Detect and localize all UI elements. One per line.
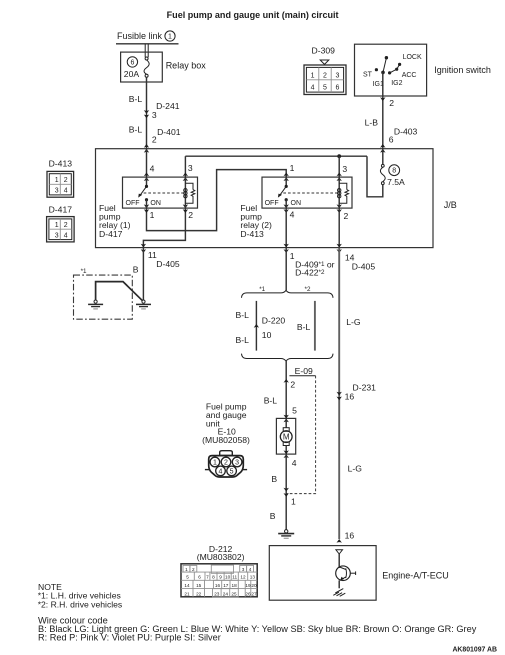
svg-text:24: 24 <box>223 591 229 596</box>
drawing number <box>452 647 497 654</box>
E-09 dashed unit boundary <box>286 376 315 494</box>
wire relay1 pin1 to relay2 pin1 <box>147 170 287 231</box>
svg-text:20: 20 <box>251 583 257 588</box>
pin 10 of D-220 <box>262 330 272 340</box>
svg-text:OFF: OFF <box>265 200 279 207</box>
wire colour label L-B <box>365 118 379 128</box>
svg-text:10: 10 <box>262 330 272 340</box>
svg-text:Ignition switch: Ignition switch <box>434 65 491 75</box>
svg-text:B-L: B-L <box>236 310 250 320</box>
relay 1 actuation dashed link <box>144 192 186 194</box>
svg-text:9: 9 <box>219 575 222 580</box>
svg-text:3: 3 <box>342 164 347 174</box>
connector D-409 or D-422 label <box>295 260 335 278</box>
svg-text:D-309: D-309 <box>312 46 336 56</box>
relay 2 pin 4 label <box>290 209 295 219</box>
wire colour label L-G <box>346 317 361 327</box>
svg-text:2: 2 <box>290 380 295 390</box>
fuel pump pin 5 label <box>292 406 297 416</box>
connector E-09 label <box>295 366 313 376</box>
connector D-405 label left <box>156 259 180 269</box>
relay 2 actuation dashed link <box>283 192 339 194</box>
svg-text:1: 1 <box>55 222 59 229</box>
svg-text:*1: *1 <box>259 286 265 293</box>
relay 1 coil with resistor <box>184 177 195 208</box>
variant 2 wire <box>314 301 316 351</box>
ground G1 at wire <box>136 300 151 309</box>
svg-text:6: 6 <box>198 575 201 580</box>
pin 2 of ignition switch <box>389 98 394 108</box>
wire colour label B-L <box>236 335 250 345</box>
svg-text:10: 10 <box>225 575 231 580</box>
connector D-241 junction arrows <box>144 110 149 118</box>
svg-text:3: 3 <box>152 110 157 120</box>
svg-text:16: 16 <box>345 392 355 402</box>
svg-text:3: 3 <box>55 232 59 239</box>
svg-text:5: 5 <box>292 406 297 416</box>
wire relay2 pin2 down inside J/B <box>338 208 340 248</box>
svg-text:19: 19 <box>245 583 251 588</box>
wire from ignition switch IG2 down <box>382 72 384 148</box>
relay 2 pin 2 label <box>344 211 349 221</box>
svg-text:3: 3 <box>55 188 59 195</box>
svg-text:5: 5 <box>230 468 234 475</box>
svg-text:4: 4 <box>219 468 223 475</box>
wire colour label B-L variant2 <box>297 322 311 332</box>
relay 2 pin 1 crossing arrows <box>284 172 289 181</box>
relay 2 pin 2 crossing arrows <box>337 204 342 213</box>
fuse 8 top lead <box>382 149 384 165</box>
fuel pump and gauge unit text <box>202 402 250 446</box>
svg-text:D-401: D-401 <box>157 127 181 137</box>
J/B pin 11 crossing arrows <box>141 244 146 253</box>
ignition switch label <box>434 65 491 75</box>
svg-text:8: 8 <box>392 168 396 175</box>
svg-text:B: B <box>133 265 139 275</box>
wire colour label B <box>270 511 276 521</box>
svg-text:B: B <box>271 474 277 484</box>
svg-text:6: 6 <box>130 59 134 66</box>
connector D-309 label <box>312 46 336 56</box>
wire from J/B pin 1 down to variant braces <box>285 248 287 291</box>
wire to transistor <box>338 554 340 568</box>
dash-dot variant box <box>74 275 133 319</box>
relay 1 pin 2 label <box>188 210 193 220</box>
svg-text:2: 2 <box>188 210 193 220</box>
top variant brace <box>242 290 334 298</box>
svg-text:16: 16 <box>345 531 355 541</box>
relay 2 ON label <box>291 200 302 207</box>
svg-text:ACC: ACC <box>402 72 417 79</box>
relay 1 pin 1 label <box>150 210 155 220</box>
connector D-405 label right <box>352 262 376 272</box>
ignition switch contacts and lever <box>363 54 422 88</box>
svg-text:ST: ST <box>363 71 373 78</box>
svg-text:D-413: D-413 <box>49 158 73 168</box>
fuse 6 element <box>144 57 149 77</box>
ECU input triangle <box>336 550 343 554</box>
relay 1 switch <box>138 177 148 208</box>
E-09 pin 2 label <box>290 380 295 390</box>
connector D-220 label <box>262 316 286 326</box>
svg-text:1: 1 <box>168 34 172 41</box>
wire colour code block <box>38 616 477 643</box>
svg-text:J/B: J/B <box>444 200 457 210</box>
ignition switch box <box>355 44 427 96</box>
wire from brace to fuel pump unit <box>285 361 287 418</box>
fuse 8 element <box>380 164 385 184</box>
variant 1 wire through D-220 <box>255 301 257 351</box>
pin 2 of D-401 <box>152 135 157 145</box>
svg-text:D-403: D-403 <box>394 127 418 137</box>
fusible link label <box>117 31 163 41</box>
motor element M <box>280 418 292 454</box>
svg-text:1: 1 <box>150 210 155 220</box>
E-09 underline <box>289 375 315 377</box>
svg-text:B: B <box>270 511 276 521</box>
svg-text:17: 17 <box>223 583 229 588</box>
relay 2 pin 3 crossing arrows <box>337 172 342 181</box>
connector D-413 label <box>49 158 73 168</box>
svg-text:13: 13 <box>250 575 256 580</box>
svg-text:4: 4 <box>150 163 155 173</box>
ECU pin 16 label <box>345 531 355 541</box>
connector D-413 pin table <box>47 171 74 197</box>
connector D-231 junction arrows <box>337 392 342 401</box>
variant marker *2 <box>305 286 311 293</box>
svg-text:1: 1 <box>55 177 59 184</box>
connector D-241 label <box>156 101 180 111</box>
transistor Q1 <box>336 566 356 581</box>
svg-text:AK801097 AB: AK801097 AB <box>452 647 497 654</box>
relay 2 OFF label <box>265 200 279 207</box>
svg-text:1: 1 <box>185 567 188 572</box>
fusible link number circle 1 <box>165 31 175 41</box>
relay 1 text label <box>99 203 131 239</box>
J/B pin 11 label <box>148 250 157 260</box>
pin 3 of D-241 <box>152 110 157 120</box>
svg-text:*2: R.H. drive vehicles: *2: R.H. drive vehicles <box>38 599 123 609</box>
wire from fuse 8 to coil bus <box>367 156 383 197</box>
connector D-231 label <box>353 382 377 392</box>
svg-text:(MU803802): (MU803802) <box>197 552 245 562</box>
wire colour label B-L <box>264 395 278 405</box>
relay 2 coil with resistor <box>338 177 349 208</box>
svg-text:B-L: B-L <box>236 335 250 345</box>
svg-text:D-417: D-417 <box>49 204 73 214</box>
svg-text:D-417: D-417 <box>99 229 123 239</box>
svg-text:B-L: B-L <box>129 124 143 134</box>
svg-text:*1: *1 <box>81 268 87 275</box>
engine ECU box <box>269 546 376 601</box>
relay 1 box <box>123 177 198 208</box>
svg-text:3: 3 <box>235 460 239 467</box>
relay 1 pin 1 crossing arrows <box>144 204 149 213</box>
svg-text:R: Red P: Pink V: Violet PU: R: Red P: Pink V: Violet PU: Purple SI: … <box>38 633 221 643</box>
svg-text:ON: ON <box>150 200 161 207</box>
pin 16 of D-231 <box>345 392 355 402</box>
svg-text:26: 26 <box>245 591 251 596</box>
svg-text:2: 2 <box>344 211 349 221</box>
J/B pin 14 label <box>345 253 355 263</box>
svg-text:3: 3 <box>242 567 245 572</box>
wire: double line from bus to fuse 6 <box>145 44 148 57</box>
svg-text:D-220: D-220 <box>262 316 286 326</box>
svg-text:2: 2 <box>152 135 157 145</box>
wire colour label B <box>271 474 277 484</box>
svg-text:IG2: IG2 <box>391 80 402 87</box>
svg-text:Engine-A/T-ECU: Engine-A/T-ECU <box>382 570 449 580</box>
relay 2 box <box>262 177 352 208</box>
svg-text:6: 6 <box>389 134 394 144</box>
fuel pump motor box <box>276 418 295 454</box>
svg-text:(MU802058): (MU802058) <box>202 435 250 445</box>
wire B-L from fuse to J/B <box>146 77 148 148</box>
svg-text:4: 4 <box>290 209 295 219</box>
relay 2 pin 4 crossing arrows <box>284 204 289 213</box>
svg-text:27: 27 <box>251 591 257 596</box>
connector D-220 arrow <box>254 324 259 328</box>
wire colour label B-L <box>129 94 143 104</box>
wire colour label B-L <box>236 310 250 320</box>
wire B from pin 11 to ground <box>142 248 144 300</box>
svg-text:7: 7 <box>206 575 209 580</box>
svg-text:3: 3 <box>188 163 193 173</box>
relay 1 pin 4 label <box>150 163 155 173</box>
svg-text:1: 1 <box>290 163 295 173</box>
svg-text:5: 5 <box>186 575 189 580</box>
alternate ground G2 <box>88 300 103 309</box>
svg-text:18: 18 <box>231 583 237 588</box>
relay 1 pin 4 crossing arrows <box>144 172 149 181</box>
relay 1 pin 3 label <box>188 163 193 173</box>
J/B pin 1 label <box>290 251 295 261</box>
variant marker *1 <box>259 286 265 293</box>
svg-text:L-B: L-B <box>365 118 379 128</box>
connector D-417 pin table <box>47 217 75 242</box>
E-09 entry arrow <box>284 379 289 383</box>
coil supply bus inside J/B <box>185 155 367 157</box>
wire bus to relay 1 pin 3 <box>184 156 186 177</box>
junction block J/B outline <box>96 149 434 248</box>
svg-text:E-09: E-09 <box>295 366 313 376</box>
svg-text:21: 21 <box>184 591 190 596</box>
variant marker *1 for ground <box>81 268 87 275</box>
svg-text:B-L: B-L <box>129 94 143 104</box>
wire B below motor <box>285 454 287 530</box>
connector D-401 crossing arrows at J/B top <box>144 144 149 153</box>
wire relay1 pin2 to J/B pin 11 <box>143 208 185 248</box>
wire transistor to chassis ground <box>338 580 340 588</box>
relay 1 pin 3 crossing arrows <box>183 172 188 181</box>
svg-text:LOCK: LOCK <box>403 54 422 61</box>
connector D-212 part number <box>197 552 245 562</box>
svg-text:7.5A: 7.5A <box>387 177 405 187</box>
svg-text:4: 4 <box>292 458 297 468</box>
svg-text:2: 2 <box>389 98 394 108</box>
svg-text:Fuel pump and gauge unit (main: Fuel pump and gauge unit (main) circuit <box>167 10 339 20</box>
connector D-417 label <box>49 204 73 214</box>
svg-text:2: 2 <box>64 177 68 184</box>
ground G3 fuel pump <box>278 530 294 539</box>
svg-text:23: 23 <box>214 591 220 596</box>
relay 2 pin 1 label <box>290 163 295 173</box>
wire L-G from J/B pin 14 down <box>338 248 340 539</box>
svg-text:4: 4 <box>64 232 68 239</box>
svg-text:OFF: OFF <box>126 200 140 207</box>
svg-text:Relay box: Relay box <box>166 61 207 71</box>
svg-text:Fusible link: Fusible link <box>117 31 163 41</box>
fuse 8 rating 7.5A <box>387 177 405 187</box>
svg-text:2: 2 <box>64 222 68 229</box>
connector E-10 drawing <box>205 451 247 477</box>
connector D-403 crossing arrows at J/B <box>380 144 385 153</box>
svg-text:L-G: L-G <box>346 317 361 327</box>
svg-text:2: 2 <box>224 460 228 467</box>
relay 2 switch <box>278 177 288 208</box>
wire colour label B <box>133 265 139 275</box>
svg-text:14: 14 <box>184 583 190 588</box>
ECU entry arrow <box>337 539 342 543</box>
wire colour label B-L <box>129 124 143 134</box>
svg-text:1: 1 <box>290 251 295 261</box>
J/B pin 1 crossing arrows <box>284 244 289 253</box>
wire bus to relay 2 pin 3 <box>338 156 340 177</box>
relay 1 OFF label <box>126 200 140 207</box>
svg-text:1: 1 <box>213 460 217 467</box>
svg-text:B-L: B-L <box>297 322 311 332</box>
ignition output arrow <box>380 97 385 101</box>
svg-text:4: 4 <box>64 188 68 195</box>
svg-text:4: 4 <box>249 567 252 572</box>
connector D-212 pin table <box>181 564 257 597</box>
connector D-309 index triangle <box>320 60 329 64</box>
svg-text:L-G: L-G <box>348 464 363 474</box>
title <box>167 10 339 20</box>
wire B-L inside J/B to relay 1 pin 4 <box>146 149 148 177</box>
svg-text:2: 2 <box>192 567 195 572</box>
svg-text:3: 3 <box>335 72 339 79</box>
wire colour label L-G lower <box>348 464 363 474</box>
J/B pin 14 crossing arrows <box>337 244 342 253</box>
svg-text:2: 2 <box>323 72 327 79</box>
svg-text:11: 11 <box>232 575 237 580</box>
relay 1 ON label <box>150 200 161 207</box>
fuse 6 rating label 20A <box>124 69 140 79</box>
relay box outline <box>121 52 163 82</box>
fuel pump pin 4 label <box>292 458 297 468</box>
connector D-401 label <box>157 127 181 137</box>
connector D-403 label <box>394 127 418 137</box>
svg-text:25: 25 <box>231 591 237 596</box>
E-09 exit pin 1 label <box>291 496 296 506</box>
svg-text:D-405: D-405 <box>352 262 376 272</box>
svg-text:ON: ON <box>291 200 302 207</box>
junction block label J/B <box>444 200 457 210</box>
svg-text:D-231: D-231 <box>353 382 377 392</box>
motor box top crossing arrows <box>284 415 289 423</box>
wire relay2 pin4 down inside J/B <box>285 208 287 248</box>
fusible link bus bar <box>116 43 179 45</box>
svg-text:15: 15 <box>196 583 202 588</box>
relay 1 pin 2 crossing arrows <box>183 204 188 213</box>
fuse number circle 8 <box>389 165 400 176</box>
svg-text:M: M <box>283 433 290 442</box>
node: relay 2 coil tap <box>337 154 341 158</box>
svg-text:D-405: D-405 <box>156 259 180 269</box>
svg-text:22: 22 <box>196 591 202 596</box>
svg-text:1: 1 <box>291 496 296 506</box>
svg-text:D-241: D-241 <box>156 101 180 111</box>
svg-text:12: 12 <box>240 575 246 580</box>
ECU label <box>382 570 449 580</box>
svg-text:4: 4 <box>311 85 315 92</box>
relay box label <box>166 61 207 71</box>
svg-text:1: 1 <box>311 72 315 79</box>
svg-text:*2: *2 <box>305 286 311 293</box>
note block <box>38 582 123 609</box>
fuse number circle 6 <box>127 57 137 67</box>
relay 2 pin 3 label <box>342 164 347 174</box>
svg-text:B-L: B-L <box>264 395 278 405</box>
connector D-309 pin table <box>304 65 346 95</box>
svg-text:20A: 20A <box>124 69 140 79</box>
chassis ground in ECU <box>333 589 345 597</box>
svg-text:8: 8 <box>212 575 215 580</box>
svg-text:16: 16 <box>215 583 221 588</box>
bottom variant brace <box>242 354 334 362</box>
svg-text:D-413: D-413 <box>240 229 264 239</box>
relay 2 text label <box>240 203 272 239</box>
E-09 exit arrows <box>284 488 289 497</box>
alternate ground wire <box>96 282 143 301</box>
svg-text:5: 5 <box>323 85 327 92</box>
svg-text:D-422*2: D-422*2 <box>295 268 325 278</box>
motor box bottom crossing arrows <box>284 450 289 458</box>
svg-text:6: 6 <box>335 85 339 92</box>
pin 6 of D-403 <box>389 134 394 144</box>
connector D-212 label <box>209 544 233 554</box>
